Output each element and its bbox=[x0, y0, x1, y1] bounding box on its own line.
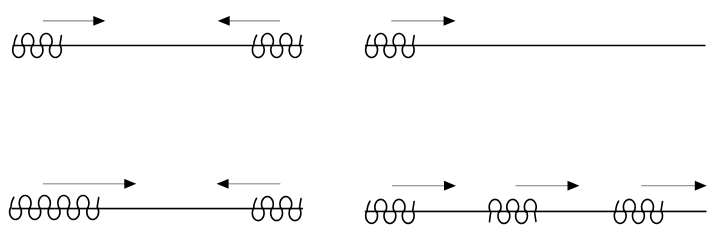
coil: right supercoil on line C bbox=[252, 197, 301, 221]
arrow: rightward over coil B bbox=[391, 16, 455, 26]
arrow: rightward over middle coil D bbox=[515, 181, 579, 191]
coil: left supercoil on line A bbox=[13, 34, 62, 58]
wire: DNA line C (bottom-left) bbox=[12, 208, 304, 210]
arrow: rightward over first coil D bbox=[392, 181, 456, 191]
wire: DNA line B (top-right) bbox=[365, 45, 706, 47]
coil: supercoil at left of line B bbox=[366, 34, 414, 58]
coil: right supercoil on line D bbox=[614, 199, 662, 223]
coil: first supercoil on line D bbox=[366, 199, 414, 223]
wire: DNA line A (top-left) bbox=[13, 45, 304, 47]
arrow: rightward over right coil D bbox=[641, 181, 707, 191]
arrow: rightward over left coil A bbox=[43, 16, 105, 26]
arrow: leftward over right coil C bbox=[217, 179, 281, 189]
wire: DNA line D (bottom-right) bbox=[365, 210, 707, 212]
coil: large left supercoil on line C (5 loops) bbox=[10, 196, 99, 220]
coil: right supercoil on line A bbox=[252, 34, 301, 58]
coil: middle supercoil on line D (inverted) bbox=[489, 199, 536, 223]
arrow: rightward over left coil C bbox=[43, 179, 136, 189]
arrow: leftward over right coil A bbox=[218, 16, 280, 26]
